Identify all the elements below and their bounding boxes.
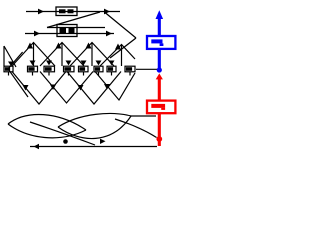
wire diagonal to red dot xyxy=(115,119,157,138)
wire diagonal D3 xyxy=(110,38,136,58)
tents (upper zigzag branches) xyxy=(4,43,135,68)
node box 5 xyxy=(79,66,89,72)
label text on lines B C box xyxy=(60,28,75,34)
arrowhead on line C right xyxy=(106,31,112,37)
red load edge xyxy=(158,79,161,146)
wire inner diagonal xyxy=(30,122,95,145)
node box 3 xyxy=(44,66,55,72)
arrowhead on line A xyxy=(38,9,44,15)
blue label box xyxy=(147,36,175,49)
wire diagonal D1 xyxy=(47,12,100,28)
box-top arrowheads xyxy=(8,61,115,67)
arrowhead on lower arc xyxy=(100,139,106,144)
wire eyeL top arc xyxy=(8,114,86,130)
blue source edge xyxy=(158,17,161,68)
blue arrowhead xyxy=(156,10,164,19)
wire top line B xyxy=(47,27,105,29)
label text on line A box xyxy=(59,9,74,13)
red node dot xyxy=(156,136,162,142)
arrowhead on bottom line left xyxy=(34,144,40,149)
wire apex drop C xyxy=(91,43,93,66)
wire V2 deep xyxy=(40,72,93,104)
wire diagonal D2 xyxy=(105,13,136,39)
wire tent D xyxy=(100,45,135,67)
blue node dot xyxy=(157,67,162,72)
red label text blob xyxy=(151,104,165,110)
label box on line A xyxy=(56,7,77,16)
arrowhead on line C left xyxy=(34,31,40,37)
lower V branches xyxy=(8,52,135,104)
wire left edge vertical xyxy=(3,46,5,66)
wire top line C xyxy=(25,33,114,35)
wire V4 deep xyxy=(95,72,135,101)
node box 4 xyxy=(64,66,75,72)
wire red stub xyxy=(158,140,161,146)
wire blue vertical upper xyxy=(158,17,161,37)
label box on lines B C xyxy=(57,25,77,37)
red arrowhead xyxy=(156,73,163,79)
wire eyeR bottom arc xyxy=(58,116,131,139)
node box 8 xyxy=(125,66,135,72)
wire blue vertical lower xyxy=(158,49,161,69)
node box 6 xyxy=(94,66,103,72)
wire left diagonal to node 1 xyxy=(8,52,28,97)
node box 7 xyxy=(107,66,116,72)
wire V1 deep xyxy=(12,72,66,105)
wire bottom line xyxy=(30,146,157,148)
wire apex drop A xyxy=(33,43,35,66)
wire red vertical upper xyxy=(158,79,161,101)
wire junction line xyxy=(136,68,157,70)
node dot bottom center xyxy=(63,139,68,144)
wire apex drop B xyxy=(61,43,63,66)
wire apex drop D xyxy=(121,45,123,66)
arrowhead on line A right xyxy=(104,9,110,15)
red label box xyxy=(147,101,175,114)
apex arrowheads xyxy=(27,43,121,50)
wire V3 deep xyxy=(67,72,121,105)
wire eyeL bottom arc xyxy=(8,124,86,138)
blue label text blob xyxy=(151,39,163,46)
node box 2 xyxy=(28,66,38,72)
bottom lens arcs xyxy=(8,69,157,146)
wire left edge slope xyxy=(4,46,16,67)
node box 1 xyxy=(4,66,13,72)
wire tent C xyxy=(70,43,114,67)
wire red vertical lower xyxy=(158,113,161,137)
node boxes row xyxy=(4,66,135,72)
wire tent B xyxy=(40,43,84,67)
wire tent A xyxy=(12,43,55,67)
wire top line A xyxy=(26,11,120,13)
wire lens tip to red xyxy=(131,115,156,117)
lower arrowheads xyxy=(23,84,111,91)
wire eyeR top arc xyxy=(58,114,131,127)
wire box stubs xyxy=(9,72,131,76)
